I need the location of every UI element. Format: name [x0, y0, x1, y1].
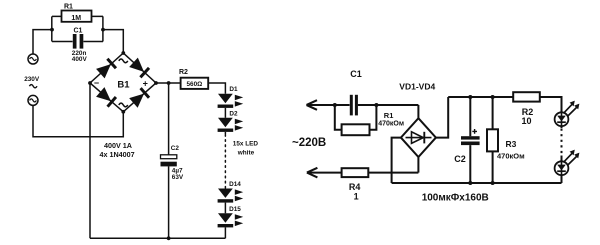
svg-text:D2: D2 — [229, 110, 238, 117]
svg-text:C2: C2 — [171, 145, 180, 152]
svg-text:C2: C2 — [454, 154, 466, 164]
svg-text:VD1-VD4: VD1-VD4 — [399, 81, 435, 91]
svg-text:470кОм: 470кОм — [378, 121, 404, 128]
svg-text:470кОм: 470кОм — [497, 151, 525, 160]
svg-text:D14: D14 — [229, 181, 241, 188]
svg-text:C1: C1 — [74, 28, 83, 35]
svg-text:400V 1A: 400V 1A — [104, 141, 132, 150]
svg-text:10: 10 — [522, 116, 532, 126]
svg-text:B1: B1 — [117, 80, 130, 91]
svg-text:15x LED: 15x LED — [233, 140, 259, 147]
svg-text:1: 1 — [354, 191, 359, 201]
svg-text:D15: D15 — [229, 206, 241, 213]
svg-text:400V: 400V — [72, 56, 88, 63]
svg-text:C1: C1 — [350, 69, 362, 79]
svg-text:−: − — [94, 78, 99, 88]
svg-text:D1: D1 — [229, 86, 238, 93]
svg-text:100мкФх160В: 100мкФх160В — [422, 193, 489, 204]
svg-text:R1: R1 — [384, 111, 394, 120]
svg-text:4x 1N4007: 4x 1N4007 — [100, 150, 135, 159]
svg-text:1M: 1M — [71, 15, 81, 22]
svg-text:R3: R3 — [506, 139, 517, 149]
svg-text:+: + — [143, 78, 148, 88]
svg-text:R1: R1 — [64, 4, 73, 11]
svg-text:white: white — [237, 149, 255, 156]
svg-text:R2: R2 — [179, 69, 188, 76]
svg-text:~220В: ~220В — [292, 137, 326, 149]
svg-text:63V: 63V — [172, 174, 184, 181]
svg-text:230V: 230V — [24, 76, 40, 83]
svg-text:560Ω: 560Ω — [187, 81, 203, 88]
